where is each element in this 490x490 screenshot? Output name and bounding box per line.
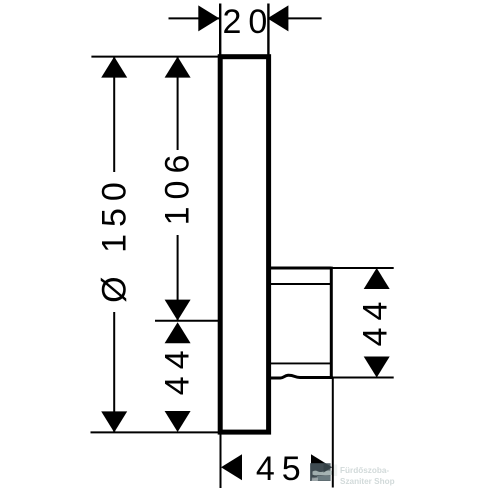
dimension arrow 45-left (points left) <box>221 454 242 480</box>
svg-text:Fürdőszoba-: Fürdőszoba- <box>340 466 389 475</box>
extension line bottom-left horizontal (plate bottom) <box>91 431 221 433</box>
dimension line 106, lower segment <box>177 235 179 320</box>
dimension arrow Ø150-top (points up) <box>101 57 127 78</box>
svg-text:44: 44 <box>159 343 197 395</box>
dimension arrow 20-right (points left) <box>267 5 288 31</box>
extension line mid-left horizontal (106/44 boundary) <box>155 320 220 322</box>
valve housing box top edge <box>267 267 331 270</box>
dimension line 20, left tail <box>169 17 220 19</box>
dimension line Ø150, upper segment <box>113 57 115 172</box>
extension line for 45, right vertical <box>332 377 334 488</box>
watermark logo arrow tip showing through <box>324 462 333 473</box>
extension line for 20, left vertical <box>219 4 221 57</box>
valve housing flange line upper <box>269 283 331 285</box>
dimension arrow 44-right-top (points up) <box>364 268 390 289</box>
dimension arrow 44-left-bottom (points down) <box>165 411 191 432</box>
svg-text:106: 106 <box>159 148 197 226</box>
dimension arrow 106-top (points up) <box>165 57 191 78</box>
svg-text:20: 20 <box>222 3 274 41</box>
watermark logo wave light streak <box>313 471 333 476</box>
valve housing flange line lower <box>269 362 331 364</box>
dimension arrow 106-bottom (points down) <box>165 300 191 321</box>
dimension arrow 20-left (points right) <box>198 5 219 31</box>
svg-text:Szaniter Shop: Szaniter Shop <box>340 477 395 486</box>
valve housing box bottom edge (wavy) <box>267 375 333 378</box>
svg-text:Ø 150: Ø 150 <box>95 175 133 303</box>
dimension line 20, right tail <box>268 17 322 19</box>
dimension arrow Ø150-bottom (points down) <box>101 411 127 432</box>
watermark logo square <box>310 463 331 481</box>
extension line for 44-right, bottom horizontal <box>331 377 393 379</box>
watermark logo bottom-left light patch <box>312 478 318 481</box>
dimension line Ø150, lower segment <box>113 312 115 432</box>
dimension arrow 45-right (under watermark logo) <box>311 454 332 480</box>
watermark logo lower patch <box>317 476 330 480</box>
extension line for 20, right vertical <box>267 4 269 57</box>
extension line for 45, left vertical <box>220 434 222 488</box>
faceplate outline (side view) <box>220 57 268 432</box>
dimension line 106, upper segment <box>177 57 179 150</box>
svg-text:45: 45 <box>256 450 308 488</box>
valve housing box right edge <box>330 267 333 378</box>
dimension arrow 44-left-top (points up) <box>165 322 191 343</box>
extension line top-left horizontal (plate top) <box>91 56 220 58</box>
dimension arrow 44-right-bottom (points down) <box>364 357 390 378</box>
svg-text:44: 44 <box>357 295 395 347</box>
extension line for 44-right, top horizontal <box>331 267 393 269</box>
watermark logo right faint spill <box>334 465 337 477</box>
